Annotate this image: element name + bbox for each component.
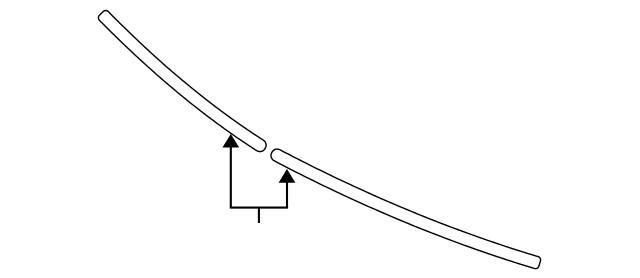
callout bracket joining both arrows: [230, 207, 288, 209]
molding strip left piece (outlined tube): [98, 10, 266, 151]
arrow 1 pointing at left piece: [223, 135, 238, 208]
molding strip right piece (outlined tube): [271, 149, 541, 269]
leader tick below bracket: [258, 208, 260, 223]
arrow 2 pointing at right piece: [280, 170, 295, 208]
